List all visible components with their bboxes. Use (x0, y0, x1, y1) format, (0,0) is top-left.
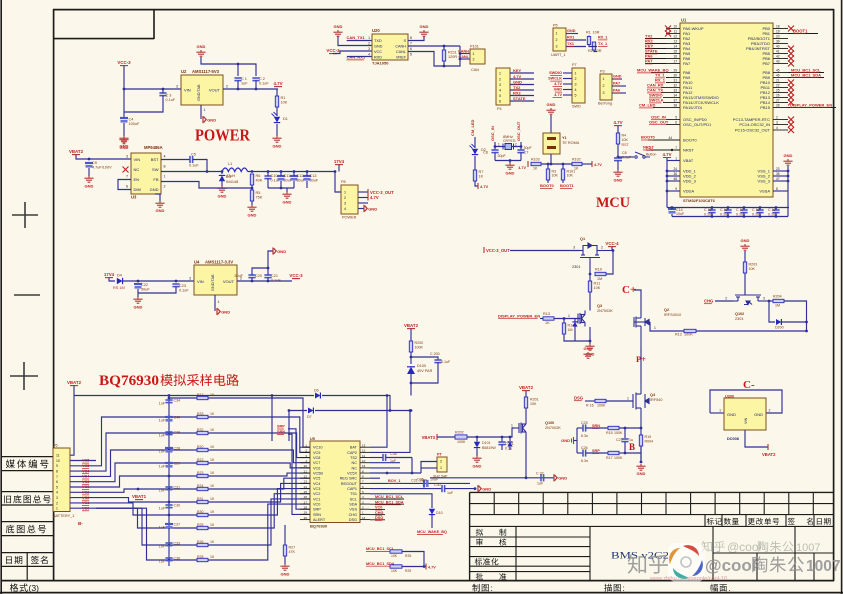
svg-text:BAT: BAT (350, 446, 358, 450)
resistor R26 row (96, 508, 197, 545)
svg-text:D4: D4 (117, 274, 122, 278)
svg-text:1: 1 (440, 466, 442, 470)
capacitor C20 (248, 275, 255, 278)
svg-text:R004: R004 (645, 440, 654, 444)
svg-text:9: 9 (56, 464, 58, 468)
capacitor C34 (165, 400, 172, 403)
CAP2 pin wire up (370, 411, 410, 453)
resistor R200 (410, 329, 412, 341)
wire R201 to Q100 (525, 408, 527, 420)
svg-text:U5: U5 (310, 437, 315, 441)
svg-text:SRP: SRP (277, 425, 285, 429)
svg-text:MCU_WAKE_BQ: MCU_WAKE_BQ (417, 530, 447, 534)
svg-text:C27: C27 (616, 438, 623, 442)
resistor R4 (617, 126, 619, 133)
svg-text:3: 3 (368, 47, 370, 51)
svg-text:BeiYong: BeiYong (598, 102, 612, 106)
power port 4.7V right of R102 (582, 163, 592, 165)
svg-text:1K: 1K (210, 445, 215, 449)
U300 VIN pin down to VBAT2 (745, 430, 768, 447)
svg-text:16: 16 (362, 464, 366, 468)
svg-text:10uF: 10uF (419, 479, 428, 483)
svg-text:VBAT2: VBAT2 (404, 323, 419, 328)
svg-text:GND: GND (567, 29, 576, 33)
svg-text:C6: C6 (483, 151, 488, 155)
svg-text:4.7uF/100V: 4.7uF/100V (92, 166, 112, 170)
resistor R102 (572, 162, 582, 165)
svg-text:GND: GND (218, 194, 227, 199)
title block row lines (470, 503, 834, 505)
wire U4 VOUT to VCC-3 (237, 280, 292, 282)
svg-text:GND: GND (374, 45, 383, 49)
resistor R10 (595, 272, 606, 275)
svg-text:R25: R25 (405, 554, 411, 558)
svg-text:R 16: R 16 (586, 404, 594, 408)
regulator U3 body (131, 153, 161, 194)
wire DSG to R16 (585, 400, 595, 402)
svg-text:GND: GND (134, 305, 143, 310)
cell net labels VC (70, 460, 96, 462)
svg-text:POWER: POWER (195, 126, 251, 145)
svg-text:VOUT: VOUT (209, 88, 221, 93)
svg-text:4: 4 (499, 88, 501, 92)
resistor R13 (540, 318, 543, 320)
power port 4.7V at P8 (367, 195, 369, 201)
svg-text:R10: R10 (595, 268, 602, 272)
svg-text:C9: C9 (92, 161, 97, 165)
svg-text:TJA1050: TJA1050 (372, 61, 389, 66)
svg-text:B: B (629, 442, 635, 452)
gnd under C8 (613, 170, 622, 176)
svg-text:3: 3 (575, 82, 577, 86)
capacitor C2 (252, 78, 259, 81)
svg-text:U4: U4 (194, 260, 200, 265)
svg-text:VC4: VC4 (82, 469, 90, 473)
regulator U2 body (181, 75, 223, 105)
resistor R17 (608, 451, 619, 454)
svg-text:13: 13 (673, 40, 677, 44)
svg-text:GND: GND (613, 75, 622, 79)
svg-text:29: 29 (304, 511, 308, 515)
wire VBAT2 down to top rail (73, 386, 75, 396)
svg-text:2: 2 (776, 116, 778, 120)
svg-text:1007: 1007 (796, 542, 820, 554)
svg-text:VC7: VC7 (313, 461, 320, 465)
ground arrow at P8 (364, 205, 367, 212)
svg-text:GND: GND (120, 145, 129, 150)
ground under R27 (284, 556, 286, 564)
wire R16 to Q4 gate (606, 400, 633, 402)
svg-text:2: 2 (499, 77, 501, 81)
vertical from D7 row to U5 area (288, 411, 290, 442)
svg-text:2301: 2301 (572, 265, 580, 269)
U300 loop wire (710, 390, 782, 413)
svg-text:VC0: VC0 (313, 503, 320, 507)
Y1 housing (550, 115, 552, 133)
no-connect marks left top (665, 26, 671, 32)
ground arrow at U2 pin1 (203, 116, 206, 123)
svg-text:RX2: RX2 (513, 90, 522, 95)
svg-text:2: 2 (601, 246, 603, 250)
gnd arrow top right of U4 (273, 247, 276, 254)
svg-text:DISPLAY_POWER_EN: DISPLAY_POWER_EN (790, 102, 832, 107)
svg-text:GND: GND (368, 206, 377, 211)
svg-text:7: 7 (410, 42, 412, 46)
svg-text:1: 1 (498, 143, 500, 147)
svg-text:1K: 1K (210, 428, 215, 432)
svg-text:MCU_BC1_SDA: MCU_BC1_SDA (791, 72, 821, 77)
svg-text:23: 23 (304, 480, 308, 484)
wire Q2 source down to Q4 (640, 348, 642, 385)
svg-text:4.7V: 4.7V (480, 184, 489, 189)
svg-text:1uF: 1uF (159, 434, 166, 438)
svg-text:R204: R204 (773, 295, 782, 299)
svg-text:VDDA: VDDA (683, 189, 694, 194)
bypass cap rail bottom (672, 216, 788, 218)
wire R204 to right loop (784, 301, 807, 331)
svg-text:30pF: 30pF (498, 154, 507, 158)
approval label shenhe (476, 538, 506, 545)
wire R10 to VCC-4 node (606, 251, 613, 275)
Q100 source wire down to long row (525, 436, 527, 478)
svg-text:OSC_OUT: OSC_OUT (649, 119, 669, 124)
svg-text:47uH: 47uH (226, 174, 235, 178)
resistor R20 row (96, 450, 197, 476)
svg-text:1K: 1K (210, 540, 215, 544)
svg-text:R29: R29 (405, 569, 411, 573)
ground under D101 (472, 456, 481, 462)
svg-text:OSC_IN: OSC_IN (490, 126, 495, 141)
svg-text:29: 29 (673, 69, 677, 73)
svg-text:0.1uF: 0.1uF (179, 289, 189, 293)
resistor R17 row (169, 397, 197, 399)
capacitor C8 (614, 158, 622, 161)
svg-text:C30: C30 (174, 504, 181, 508)
svg-text:10K: 10K (530, 402, 537, 406)
svg-text:10K: 10K (281, 100, 288, 104)
svg-text:SRN: SRN (592, 424, 600, 428)
svg-text:47: 47 (776, 177, 780, 181)
svg-text:GND: GND (784, 153, 793, 158)
wire Q4 source down (640, 425, 642, 462)
svg-text:SCL: SCL (350, 497, 357, 501)
svg-text:10: 10 (56, 459, 60, 463)
push button S2C (618, 156, 634, 158)
svg-text:100K: 100K (684, 333, 693, 337)
svg-text:32: 32 (673, 84, 677, 88)
capacitor C35 on REGOUT (423, 480, 425, 488)
svg-text:4.7V: 4.7V (513, 74, 522, 79)
wire U3 SW to inductor (161, 171, 222, 173)
svg-text:SRP: SRP (313, 508, 321, 512)
svg-text:VBAT2: VBAT2 (519, 385, 534, 390)
svg-text:BOOT0: BOOT0 (641, 135, 656, 140)
connector P8 (341, 185, 358, 214)
svg-text:7: 7 (56, 475, 58, 479)
cap ladder vertical wire (168, 398, 170, 566)
svg-text:C31: C31 (174, 486, 181, 490)
svg-text:6.3n: 6.3n (581, 434, 588, 438)
svg-text:GND: GND (614, 178, 623, 183)
svg-text:R17: R17 (606, 456, 613, 460)
U1 VDDA pin (667, 190, 680, 192)
svg-text:7: 7 (675, 146, 677, 150)
P5 nets (566, 33, 578, 35)
svg-text:P8: P8 (341, 180, 346, 184)
svg-text:L1: L1 (228, 162, 232, 166)
resistor R33 row (96, 417, 197, 466)
svg-text:PA7: PA7 (683, 61, 691, 66)
svg-text:BATTERY_1: BATTERY_1 (53, 514, 74, 518)
capacitor C9 (85, 162, 93, 164)
svg-text:GND: GND (482, 486, 491, 491)
svg-text:3: 3 (344, 202, 346, 206)
svg-text:VBAT: VBAT (683, 158, 694, 163)
svg-text:100K: 100K (415, 346, 424, 350)
svg-text:10K: 10K (749, 267, 756, 271)
wire VCC-3 down to VIN rail (124, 66, 181, 89)
capacitor C31 (165, 487, 172, 490)
svg-text:R22: R22 (197, 458, 203, 462)
svg-text:16: 16 (673, 55, 677, 59)
capacitor C200 (411, 357, 438, 360)
svg-text:43: 43 (776, 60, 780, 64)
net label DSG at U5 (370, 519, 385, 521)
capacitor C1 (234, 78, 241, 81)
svg-text:PB15: PB15 (760, 105, 771, 110)
svg-text:30uF: 30uF (310, 179, 319, 183)
svg-text:8: 8 (776, 187, 778, 191)
resistor R30 row (96, 503, 197, 515)
gate wire down to R10 node (589, 262, 591, 274)
svg-text:STATE: STATE (513, 96, 526, 101)
svg-text:13: 13 (362, 444, 366, 448)
svg-text:TX1: TX1 (567, 42, 574, 46)
margin mark minus (14, 294, 40, 296)
svg-text:37: 37 (673, 99, 677, 103)
diode D101 (474, 442, 480, 448)
gnd left of C25 C26 (576, 428, 578, 453)
svg-text:8: 8 (56, 470, 58, 474)
svg-text:4: 4 (368, 53, 370, 57)
svg-text:11: 11 (56, 454, 60, 458)
VC5X wire to PT (370, 472, 421, 474)
svg-text:0.1u: 0.1u (505, 447, 512, 451)
svg-text:100K: 100K (614, 431, 623, 435)
svg-text:VCC-4: VCC-4 (605, 241, 619, 246)
svg-text:C 16: C 16 (720, 208, 728, 212)
svg-text:DSG: DSG (574, 395, 583, 400)
capacitor C12 (290, 175, 298, 177)
resistor R28 row (96, 508, 197, 560)
svg-text:PC15-OSC32_OUT: PC15-OSC32_OUT (735, 128, 771, 133)
svg-text:28: 28 (304, 506, 308, 510)
svg-text:4: 4 (344, 207, 346, 211)
svg-text:CANL: CANL (396, 50, 406, 54)
svg-text:VC3: VC3 (82, 485, 89, 489)
svg-text:C21: C21 (271, 274, 278, 278)
svg-text:1: 1 (675, 157, 677, 161)
svg-text:42: 42 (776, 55, 780, 59)
net label VCC-3_OUT at P8 (367, 189, 369, 195)
resistor R3 boot0 (547, 163, 550, 166)
svg-text:2: 2 (725, 297, 727, 301)
capacitor C38 on TS2 (370, 457, 383, 459)
svg-text:STM32F103C8T6: STM32F103C8T6 (683, 198, 716, 203)
svg-text:BOOT1: BOOT1 (793, 28, 808, 33)
svg-text:D200: D200 (775, 326, 784, 330)
svg-text:NC: NC (134, 167, 140, 172)
gnd arrow right of C32 (554, 474, 557, 481)
svg-text:0.1uF: 0.1uF (166, 98, 176, 102)
svg-text:D1: D1 (283, 117, 288, 121)
power port 4.7V left of R103 (527, 161, 529, 167)
zener D100 with C200 loop (410, 352, 412, 364)
row with diode D7 (289, 410, 307, 412)
svg-text:36: 36 (673, 172, 677, 176)
svg-text:R211: R211 (448, 51, 457, 55)
svg-text:GND: GND (754, 412, 763, 417)
svg-text:C5: C5 (191, 153, 196, 157)
termination resistor R211 (443, 46, 445, 50)
svg-text:4.7V: 4.7V (554, 93, 562, 97)
svg-text:IRF540: IRF540 (650, 398, 662, 402)
svg-text:TS2: TS2 (350, 456, 357, 460)
ground above R203 (740, 244, 749, 250)
svg-text:SWDIO: SWDIO (549, 71, 562, 75)
svg-text:1: 1 (499, 71, 501, 75)
svg-text:C 32: C 32 (536, 472, 544, 476)
svg-text:SRN: SRN (313, 513, 321, 517)
U1 left net labels group2 (651, 72, 666, 74)
svg-text:R5: R5 (256, 191, 261, 195)
svg-text:R200: R200 (415, 341, 424, 345)
inductor L1 (222, 168, 248, 172)
svg-text:1: 1 (719, 409, 721, 413)
svg-text:C 19: C 19 (768, 208, 776, 212)
svg-text:VSS: VSS (349, 508, 357, 512)
P8 output wires (358, 191, 368, 193)
svg-text:C11: C11 (284, 174, 291, 178)
bottom margin edge line (0, 592, 843, 594)
svg-text:20: 20 (304, 464, 308, 468)
svg-text:VC8: VC8 (313, 456, 320, 460)
wire R11 to Q3 drain (589, 292, 591, 303)
svg-text:EN: EN (134, 177, 140, 182)
svg-text:0.1uF: 0.1uF (441, 360, 451, 364)
resistor R2 series (592, 42, 595, 50)
svg-text:VC5: VC5 (82, 459, 89, 463)
sidebar label old-base-number (4, 495, 50, 503)
svg-text:GND/TAB: GND/TAB (197, 84, 201, 101)
svg-text:NRST: NRST (643, 145, 654, 150)
wire R202 to Q100 gate (467, 428, 514, 437)
frame left border (53, 9, 55, 581)
svg-text:Button: Button (646, 153, 656, 157)
REGOUT long wire (370, 482, 470, 484)
wire CANH (408, 45, 460, 47)
P4 wires and net labels (510, 72, 534, 74)
capacitor C6 (494, 147, 496, 151)
svg-text:R11: R11 (594, 282, 601, 286)
svg-text:45: 45 (776, 69, 780, 73)
svg-text:SW: SW (152, 167, 159, 172)
svg-text:MCU_BC1_SCL: MCU_BC1_SCL (375, 495, 404, 499)
svg-text:CHG: CHG (349, 513, 357, 517)
svg-text:C34: C34 (174, 399, 181, 403)
wire D2 to R7 (474, 156, 476, 170)
resistor R204 (769, 300, 773, 302)
wire R14 to gnd rail (564, 334, 590, 341)
svg-text:11: 11 (674, 30, 678, 34)
svg-text:2: 2 (575, 77, 577, 81)
svg-text:SWCLK: SWCLK (548, 77, 562, 81)
MCU U1 body (680, 23, 773, 197)
resistor R5 (251, 185, 253, 190)
svg-text:VC5X: VC5X (347, 472, 357, 476)
svg-text:40V PAR: 40V PAR (417, 369, 433, 373)
EN-DIM loop wire (118, 180, 131, 190)
svg-text:VSSA: VSSA (759, 189, 770, 194)
svg-text:R1: R1 (281, 96, 286, 100)
svg-text:P5: P5 (553, 24, 558, 28)
svg-text:1K: 1K (210, 510, 215, 514)
svg-text:FB: FB (153, 177, 158, 182)
svg-text:22: 22 (776, 84, 780, 88)
capacitor C27 (624, 428, 626, 438)
svg-text:0.1uF: 0.1uF (189, 164, 199, 168)
svg-text:1: 1 (473, 52, 475, 56)
svg-text:DC008: DC008 (727, 437, 739, 441)
svg-text:CANL: CANL (458, 55, 469, 59)
svg-text:27: 27 (776, 99, 780, 103)
svg-text:VC9: VC9 (313, 451, 320, 455)
svg-text:U2: U2 (181, 69, 187, 74)
svg-text:1K: 1K (210, 484, 215, 488)
svg-text:0.1uF: 0.1uF (259, 82, 269, 86)
svg-text:4: 4 (776, 126, 778, 130)
svg-text:VC2: VC2 (82, 496, 89, 500)
U5 left pin stubs (300, 446, 310, 448)
svg-text:5: 5 (56, 485, 58, 489)
wire CANL (408, 46, 460, 66)
svg-text:40: 40 (776, 45, 780, 49)
svg-text:GND: GND (420, 24, 429, 29)
svg-text:2: 2 (515, 143, 517, 147)
svg-text:R7: R7 (479, 170, 484, 174)
LED D1 (274, 117, 280, 123)
svg-text:C 17: C 17 (736, 208, 744, 212)
svg-text:D6: D6 (314, 389, 319, 393)
FB feedback wire (161, 182, 252, 189)
svg-text:22: 22 (304, 475, 308, 479)
capacitor C30 (165, 505, 172, 508)
svg-text:D7: D7 (307, 415, 312, 419)
svg-text:2N7002K: 2N7002K (545, 426, 561, 430)
svg-text:1K: 1K (210, 412, 215, 416)
svg-text:30uF: 30uF (234, 274, 243, 278)
ground under U3 (155, 201, 164, 207)
svg-text:PA7: PA7 (645, 59, 653, 64)
svg-text:C7: C7 (524, 151, 529, 155)
svg-text:3: 3 (56, 496, 58, 500)
zener at Q3 gate (572, 322, 577, 327)
svg-text:GND: GND (207, 117, 216, 122)
svg-text:1uF: 1uF (159, 560, 166, 564)
junction at Q102 drain (768, 300, 771, 303)
svg-text:40K: 40K (256, 179, 263, 183)
svg-text:39: 39 (776, 40, 780, 44)
